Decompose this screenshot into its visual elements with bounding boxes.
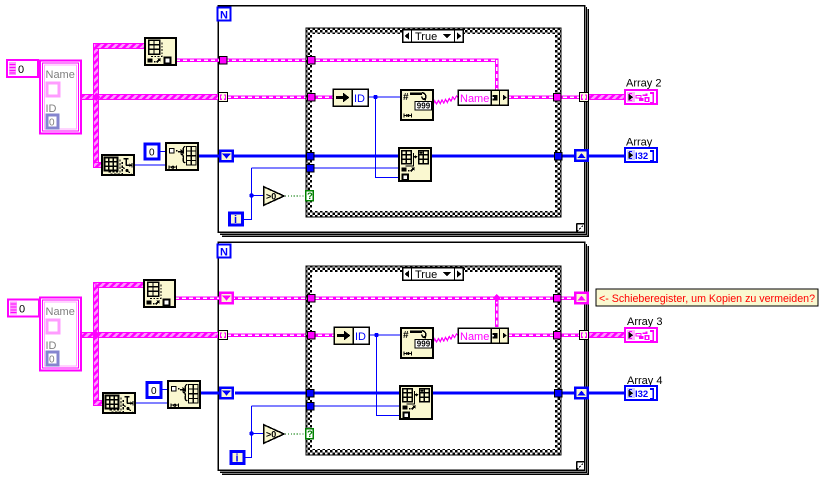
- svg-text:Array: Array: [626, 137, 653, 149]
- svg-text:<- Schieberegister, um Kopien: <- Schieberegister, um Kopien zu vermeid…: [599, 293, 815, 305]
- svg-text:Array 2: Array 2: [626, 78, 661, 90]
- svg-text:Array 3: Array 3: [627, 316, 662, 328]
